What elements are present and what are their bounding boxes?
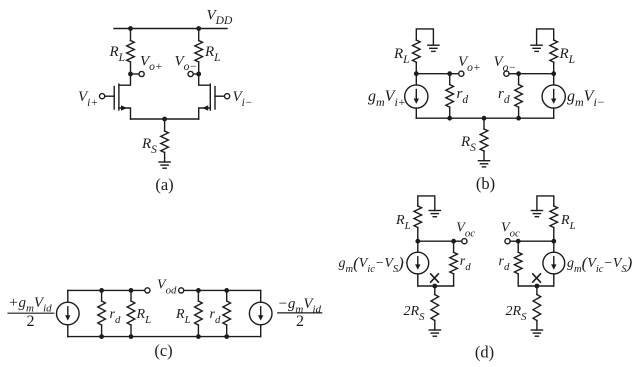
bottom wire (c) <box>68 336 261 338</box>
svg-text:rd: rd <box>457 86 469 106</box>
wire node to rd (d-right) <box>518 240 554 242</box>
common source wire of (a) <box>131 118 199 120</box>
current source gm(Vic-VS) (d-right) <box>553 241 555 252</box>
resistor RS of (b) <box>483 118 485 129</box>
resistor RL mid-left (c) <box>130 290 132 301</box>
wire to Vo- terminal (b) <box>509 73 518 75</box>
node Vo+ junction dot <box>128 72 133 77</box>
wire from Vo- terminal <box>193 73 198 75</box>
transistor M2 source wire <box>199 108 211 119</box>
resistor RL right of (b) <box>553 39 555 41</box>
node dot left RL/source (b) <box>414 71 419 76</box>
junction dot at right rd top (b) <box>516 71 521 76</box>
junction dot bottom (d-right) <box>535 284 540 289</box>
bottom junction dot rd far-right (c) <box>224 334 229 339</box>
svg-text:Vo−: Vo− <box>175 53 198 73</box>
junction dot at rd top (d-left) <box>451 239 456 244</box>
svg-text:Voc: Voc <box>456 221 475 240</box>
svg-text:Vi−: Vi− <box>233 89 253 109</box>
node X mark (d-left) <box>430 273 439 282</box>
bottom junction dot RL mid-right (c) <box>196 334 201 339</box>
svg-text:RS: RS <box>141 136 157 156</box>
svg-text:(a): (a) <box>155 175 173 194</box>
bottom junction dot rd far-left (c) <box>99 334 104 339</box>
svg-text:(b): (b) <box>476 174 495 193</box>
svg-text:RL: RL <box>109 44 126 64</box>
svg-text:(c): (c) <box>154 341 172 360</box>
svg-text:2RS: 2RS <box>506 304 528 323</box>
top junction dot at rd right (c) <box>224 288 229 293</box>
Vi+ input open terminal <box>100 94 105 99</box>
resistor RL right of (a) <box>198 29 200 41</box>
common bottom wire (b) <box>416 117 553 119</box>
transistor M2 gate bar <box>214 87 216 110</box>
svg-text:Vo−: Vo− <box>494 54 517 74</box>
top junction dot at RL left (c) <box>129 288 134 293</box>
svg-text:gmVi+: gmVi+ <box>368 88 406 109</box>
bottom wire (d-left) <box>418 285 454 287</box>
svg-text:RS: RS <box>460 134 476 154</box>
transistor M1 channel bar <box>118 84 120 110</box>
wire to Vo+ terminal <box>131 73 139 75</box>
top junction dot at RL right (c) <box>196 288 201 293</box>
svg-text:+gmVid: +gmVid <box>8 295 52 315</box>
svg-text:rd: rd <box>498 86 510 106</box>
ground symbol top-left (b) <box>428 44 439 46</box>
ground symbol bottom (d-right) <box>531 329 542 331</box>
Vo- open terminal <box>188 71 193 76</box>
resistor rd (d-left) <box>453 241 455 252</box>
node dot at RL bottom (d-right) <box>551 239 556 244</box>
junction dot at rd top (d-right) <box>516 239 521 244</box>
svg-text:Voc: Voc <box>501 221 520 240</box>
transistor M1 gate bar <box>113 87 115 110</box>
bottom junction dot left (b) <box>447 116 452 121</box>
resistor RL left of (a) <box>130 29 132 41</box>
wire node to rd (d-left) <box>418 240 454 242</box>
Voc open terminal (d-left) <box>462 239 467 244</box>
bottom junction dot RL mid-left (c) <box>129 334 134 339</box>
resistor RL mid-right (c) <box>197 290 199 301</box>
resistor rd far-right (c) <box>226 290 228 301</box>
svg-text:RL: RL <box>560 213 576 232</box>
current source gm(Vic-VS) (d-left) <box>417 241 419 252</box>
wire left node to rd (b) <box>416 73 449 75</box>
resistor RL (d-left) <box>414 206 422 228</box>
transistor M1 source arrow <box>121 105 127 110</box>
svg-text:Vo+: Vo+ <box>140 53 163 73</box>
junction dot at left rd top (b) <box>447 71 452 76</box>
node X mark (d-right) <box>532 273 541 282</box>
transistor M2 gate lead wire <box>215 95 224 97</box>
resistor RL (d-right) <box>550 206 558 228</box>
svg-text:RL: RL <box>175 307 191 326</box>
current source gmVi- (b) <box>553 74 555 85</box>
Vo- open terminal (b) <box>504 71 509 76</box>
ground symbol bottom (b) <box>478 160 489 162</box>
current source gmVi+ (b) <box>415 74 417 85</box>
svg-text:2: 2 <box>296 313 304 330</box>
wire to Voc terminal (d-right) <box>510 240 518 242</box>
bottom junction dot middle (b) <box>482 116 487 121</box>
resistor rd left (b) <box>449 74 451 85</box>
ground bracket wire top-left (b) <box>416 29 433 45</box>
junction dot on VDD rail right <box>196 26 201 31</box>
label -gmVid over 2 fraction bar <box>278 312 322 314</box>
wire to Vo+ terminal (b) <box>450 73 459 75</box>
resistor rd far-left (c) <box>101 290 103 301</box>
current source -gmVid/2 (c) <box>260 290 262 302</box>
svg-text:gmVi−: gmVi− <box>567 88 605 109</box>
label +gmVid over 2 fraction bar <box>8 312 54 314</box>
Vod left open terminal <box>145 288 150 293</box>
junction dot bottom (d-left) <box>432 284 437 289</box>
resistor rd right (b) <box>518 74 520 85</box>
ground bracket wire top (d-left) <box>418 196 435 211</box>
svg-text:rd: rd <box>499 254 510 273</box>
ground symbol of (a) <box>159 161 170 163</box>
transistor M1 drain wire <box>119 74 131 85</box>
junction dot on VDD rail left <box>128 26 133 31</box>
node dot right RL/source (b) <box>551 71 556 76</box>
node dot at RL bottom (d-left) <box>415 239 420 244</box>
top junction dot at rd left (c) <box>99 288 104 293</box>
svg-text:gm(Vic−VS): gm(Vic−VS) <box>567 253 633 275</box>
svg-text:RL: RL <box>393 46 410 66</box>
ground bracket wire top (d-right) <box>537 196 554 211</box>
svg-text:Vi+: Vi+ <box>78 89 98 109</box>
ground symbol top (d-right) <box>531 210 542 212</box>
ground symbol bottom (d-left) <box>429 329 440 331</box>
transistor M2 drain wire <box>199 74 211 85</box>
svg-text:2RS: 2RS <box>404 304 426 323</box>
transistor M1 gate lead wire <box>105 95 114 97</box>
transistor M2 source arrow <box>202 105 208 110</box>
Vi- input open terminal <box>225 94 230 99</box>
bottom wire (d-right) <box>518 285 554 287</box>
svg-text:rd: rd <box>460 254 471 273</box>
Vo+ open terminal (b) <box>459 71 464 76</box>
wire to Voc terminal (d-left) <box>454 240 462 242</box>
ground symbol top (d-left) <box>429 210 440 212</box>
ground bracket wire top-right (b) <box>537 29 554 45</box>
resistor 2RS (d-right) <box>536 286 538 295</box>
ground symbol top-right (b) <box>531 44 542 46</box>
svg-text:RL: RL <box>559 46 576 66</box>
svg-text:RL: RL <box>204 44 221 64</box>
svg-text:rd: rd <box>210 307 221 326</box>
svg-text:(d): (d) <box>475 342 494 361</box>
subfigure (a) VDD supply rail wire <box>114 28 227 30</box>
resistor 2RS (d-left) <box>434 286 436 295</box>
transistor M2 channel bar <box>209 84 211 110</box>
bottom junction dot right (b) <box>516 116 521 121</box>
transistor M1 source wire <box>119 108 131 119</box>
Voc open terminal (d-right) <box>505 239 510 244</box>
svg-text:RL: RL <box>136 307 152 326</box>
svg-text:2: 2 <box>27 313 35 330</box>
svg-text:gm(Vic−VS): gm(Vic−VS) <box>339 253 405 275</box>
resistor RS of (a) <box>164 119 166 131</box>
wire right node to rd (b) <box>519 73 554 75</box>
svg-text:RL: RL <box>395 213 411 232</box>
svg-text:VDD: VDD <box>207 7 233 27</box>
svg-text:Vod: Vod <box>157 278 177 297</box>
top wire left half (c) <box>68 289 145 291</box>
resistor RL left of (b) <box>415 39 417 41</box>
node Vo- junction dot <box>196 72 201 77</box>
Vod right open terminal <box>179 288 184 293</box>
top wire right half (c) <box>184 289 261 291</box>
resistor rd (d-right) <box>517 241 519 252</box>
current source +gmVid/2 (c) <box>67 290 69 302</box>
svg-text:rd: rd <box>110 307 121 326</box>
Vo+ open terminal <box>139 71 144 76</box>
common source junction dot <box>162 117 167 122</box>
